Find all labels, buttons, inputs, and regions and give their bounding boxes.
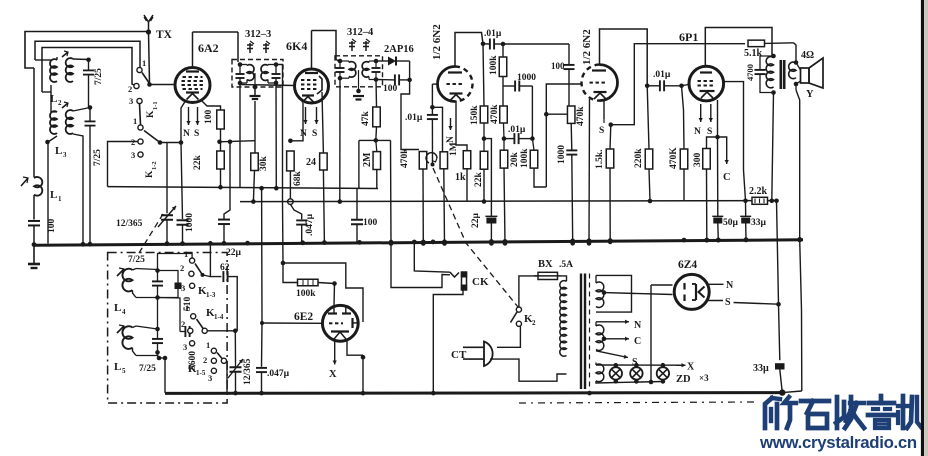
node plate RC — [481, 42, 486, 47]
svg-text:7/25: 7/25 — [139, 364, 156, 374]
svg-text:N: N — [634, 320, 642, 331]
svg-text:.5A: .5A — [559, 260, 573, 270]
page right border — [921, 0, 924, 456]
svg-text:1: 1 — [185, 303, 189, 313]
svg-text:S: S — [599, 126, 604, 136]
svg-text:47k: 47k — [361, 111, 371, 127]
wire 6K4 grid — [240, 85, 295, 86]
resistor 300 — [707, 137, 718, 149]
capacitor 100 (AVC end) — [356, 189, 358, 220]
wire detector to pot top — [401, 80, 419, 150]
capacitor .01u (AF coupling) — [431, 119, 433, 164]
speaker voice coil — [794, 60, 799, 65]
6A2 grids mesh — [183, 76, 186, 78]
312-4 center ground — [358, 70, 360, 91]
node HV tap — [602, 290, 607, 295]
resistor 100k (tone 2) — [530, 150, 538, 168]
coil L3 secondary winding — [66, 110, 73, 134]
312-3 primary coil — [247, 65, 254, 81]
wire K1-2 arm to oscillator node — [160, 142, 181, 144]
312-4 left cap — [336, 67, 345, 69]
wire cathode C tap — [718, 137, 727, 152]
wire 1M bottom to B+ line — [443, 169, 446, 244]
IF transformer 312-4 box — [335, 56, 383, 87]
312-3 center tap ground — [254, 73, 256, 87]
svg-text:3: 3 — [129, 96, 133, 106]
wire 6K4 screen to 24 ohm — [322, 92, 323, 153]
K1-3 arm — [195, 264, 203, 275]
svg-text:ZD: ZD — [676, 374, 691, 385]
pilot lamp ZD 1 — [614, 363, 619, 368]
wire 6Z4 S to B+ riser — [734, 303, 779, 305]
wire heater 6N2-2 to bus — [588, 99, 591, 243]
svg-text:2AP16: 2AP16 — [384, 44, 414, 55]
capacitor .047u (IF) — [296, 219, 307, 221]
svg-text:1-2: 1-2 — [151, 161, 158, 170]
6Z4 cathode chevron — [699, 287, 705, 298]
watermark char shi — [801, 399, 829, 404]
svg-text:1-3: 1-3 — [206, 291, 216, 299]
svg-text:1-4: 1-4 — [214, 313, 224, 321]
wire 30k to B+ line — [253, 171, 254, 202]
wire K1-1 c3 to K1-2 c1 — [140, 104, 141, 125]
wire B+ to 6E2 — [282, 202, 285, 263]
ground symbol left — [33, 245, 35, 263]
wire HV to 6Z4 plate 1 — [651, 284, 673, 286]
wire 312-3 secondary bottom to AVC — [275, 83, 277, 188]
6N2-1 heater arrow N — [450, 118, 452, 130]
312-3 left tuning cap — [236, 73, 245, 75]
wire S tap — [596, 351, 628, 358]
wire L5 top — [136, 326, 158, 329]
svg-text:1000: 1000 — [557, 145, 567, 164]
svg-text:100k: 100k — [489, 55, 499, 75]
resistor 24 (6K4 screen) — [320, 153, 328, 170]
capacitor .01u (tone 2) — [513, 133, 515, 144]
6K4 plate pin — [311, 31, 313, 71]
6E2 top bars — [328, 312, 337, 314]
svg-text:2.2k: 2.2k — [749, 186, 768, 197]
svg-text:100: 100 — [551, 61, 565, 71]
coil L2 secondary winding — [66, 58, 73, 82]
tube 6E2 envelope — [322, 305, 358, 341]
wire AVC down through .047u — [261, 323, 264, 367]
svg-text:CK: CK — [472, 276, 489, 288]
svg-text:1/2 6N2: 1/2 6N2 — [431, 24, 443, 60]
resistor 22k (6A2) — [217, 151, 225, 169]
svg-text:1: 1 — [133, 116, 137, 126]
wire 22k to AVC line — [220, 169, 222, 187]
wire lamp row bottom — [596, 381, 663, 383]
svg-text:30k: 30k — [259, 156, 269, 172]
wire L3 sec top to trimmer 2 — [73, 108, 90, 112]
K2 arm — [511, 312, 518, 323]
svg-text:Y: Y — [806, 89, 814, 100]
6N2-1 plate wire up — [455, 33, 483, 67]
wire detector line to CK break contact — [391, 244, 450, 288]
svg-text:4700: 4700 — [745, 64, 755, 81]
watermark char kuang — [765, 398, 772, 428]
6K4 grid rows — [301, 79, 304, 81]
6N2-2 cathode wire S — [603, 99, 605, 119]
wire cathode to NFB riser — [611, 44, 745, 125]
switch K2 — [516, 307, 521, 312]
wire screen node — [220, 141, 256, 142]
core arrow L2 — [62, 52, 68, 57]
wire L4 top — [136, 269, 158, 270]
tube 6K4 envelope — [295, 69, 329, 103]
node screen divider — [217, 140, 222, 145]
bottom ground bus — [165, 391, 782, 395]
AVC line (grid-return bus) — [108, 187, 379, 189]
svg-text:33µ: 33µ — [751, 218, 767, 228]
6E2 right pin down — [347, 340, 363, 355]
K1-5 arm — [217, 353, 224, 361]
resistor 22k (AF) — [480, 151, 488, 169]
wire L2 sec top to trimmer — [73, 58, 89, 61]
svg-text:3: 3 — [131, 150, 135, 160]
dashed gang link to tuning cap — [139, 214, 163, 253]
wire 6E2 anode pin — [333, 284, 336, 307]
node L2 trimmer top — [86, 58, 91, 63]
wire 30k top riser — [254, 101, 256, 153]
svg-text:1k: 1k — [455, 172, 466, 183]
trimmer 7/25 (3) — [155, 268, 160, 273]
svg-text:1: 1 — [142, 58, 146, 68]
svg-text:3: 3 — [183, 342, 187, 352]
svg-text:2: 2 — [181, 319, 185, 329]
6N2-2 cathode — [594, 91, 607, 93]
6Z4 plates — [683, 283, 685, 290]
6E2 cathode — [331, 330, 349, 332]
wire CK body to bottom bus — [433, 291, 463, 393]
resistor 20k — [500, 150, 508, 168]
resistor 470k (grid leak 6N2-2) — [567, 106, 575, 123]
coil L5 — [122, 326, 132, 349]
6A2 plate pin — [192, 32, 194, 69]
pot wiper — [426, 153, 437, 163]
tuning capacitor 12/365 (2) — [235, 362, 237, 367]
wire rectifier output down to 33u — [779, 304, 780, 360]
svg-text:3: 3 — [63, 151, 67, 159]
speaker 4ohm Y — [801, 68, 810, 83]
B+ line — [240, 201, 776, 202]
resistor 1M — [440, 152, 448, 169]
312-3 right tuning cap — [272, 73, 281, 75]
svg-text:470k: 470k — [490, 104, 500, 124]
wire K1-4 common to gang node — [207, 330, 235, 332]
6P1 cathode wire — [717, 100, 719, 137]
wire 6E2 target feed — [283, 263, 363, 322]
6P1 screen wire to B+ — [724, 82, 746, 201]
band unit dashed box — [108, 253, 228, 404]
svg-text:1-1: 1-1 — [152, 101, 159, 110]
junction L2/L3 — [42, 91, 51, 93]
wire lamp row top — [596, 364, 683, 366]
resistor 100k (6E2) — [283, 263, 298, 283]
wire plug bottom to primary bottom — [490, 359, 567, 381]
6N2-2 plate bar — [592, 69, 606, 71]
svg-text:N: N — [694, 127, 701, 137]
capacitor 5600 — [158, 298, 181, 332]
svg-text:6K4: 6K4 — [286, 39, 307, 53]
wire K1-3 c1 feed — [158, 254, 193, 271]
node 20k top — [503, 123, 506, 139]
6Z4 heater N — [706, 283, 723, 285]
wire plug to K2 — [497, 327, 521, 348]
svg-text:CT: CT — [451, 349, 467, 361]
svg-text:.047µ: .047µ — [267, 369, 290, 379]
svg-text:N: N — [446, 136, 456, 143]
svg-text:6P1: 6P1 — [679, 30, 698, 44]
wire 6A2 screen to 100 ohm — [201, 100, 221, 110]
6P1 grid wire — [682, 84, 690, 85]
tube 6A2 envelope — [175, 68, 210, 103]
6K4 heater arrows N S — [305, 107, 307, 124]
wire L3 right bottom to ground bus — [73, 134, 83, 244]
wire HV tap to 6Z4 plate 2 — [604, 293, 673, 295]
capacitor 22u (cathode) — [486, 218, 496, 224]
wire bus to CK tip — [414, 242, 450, 272]
capacitor .01u (NF) — [489, 39, 491, 50]
wire 6K4 plate to 312-4 — [312, 31, 339, 62]
core shield dashed — [589, 274, 591, 390]
wire 312-3 primary bottom down — [239, 83, 241, 187]
svg-text:5: 5 — [122, 367, 126, 375]
capacitor .047u (6E2) — [256, 367, 267, 369]
wire HV down to lamps — [650, 285, 652, 382]
svg-text:2M: 2M — [362, 152, 373, 167]
resistor 68k — [287, 151, 295, 171]
wire K1-5 common down — [226, 362, 229, 393]
resistor 30k — [251, 153, 259, 171]
svg-text:1000: 1000 — [185, 213, 195, 232]
svg-text:2: 2 — [203, 355, 207, 365]
coil L1 antenna rod — [33, 68, 35, 177]
resistor 5.1k (NFB) — [748, 40, 765, 47]
wire K1-3 arm to 62 node — [203, 275, 211, 277]
wire 24 to ground bus — [323, 170, 324, 243]
wire fuse to primary — [561, 276, 567, 281]
svg-text:S: S — [725, 297, 731, 308]
output transformer core — [779, 60, 782, 89]
resistor 1.5k — [606, 149, 614, 168]
svg-text:4: 4 — [122, 308, 126, 316]
312-3 corner nodes — [240, 64, 247, 66]
svg-text:www.crystalradio.cn: www.crystalradio.cn — [759, 433, 917, 452]
svg-text:N: N — [183, 129, 190, 139]
switch K1-4 — [191, 314, 196, 319]
antenna TX — [144, 15, 153, 22]
svg-text:2: 2 — [180, 263, 184, 273]
wire B+ node down to rectifier — [777, 201, 779, 304]
svg-text:1: 1 — [206, 340, 210, 350]
tube 6N2 first half envelope — [438, 67, 456, 102]
svg-text:12/365: 12/365 — [116, 219, 143, 229]
svg-text:312–4: 312–4 — [347, 27, 374, 38]
6N2-2 grid dashes — [590, 82, 593, 84]
capacitor 50u — [717, 137, 719, 217]
node bottom bus right end — [779, 389, 785, 395]
wire plate node to 100 cap — [503, 43, 569, 45]
tube 6P1 envelope — [689, 66, 724, 101]
wire K1-2 c2 to AVC line — [108, 142, 138, 187]
svg-text:6E2: 6E2 — [294, 311, 313, 323]
wire detector node to volume pot — [390, 140, 393, 243]
svg-text:S: S — [312, 129, 317, 139]
svg-text:2: 2 — [128, 84, 132, 94]
svg-text:C: C — [634, 336, 641, 347]
svg-text:50µ: 50µ — [723, 218, 739, 228]
coil L3 primary winding — [50, 111, 57, 134]
6N2-1 plate bar — [448, 71, 462, 73]
switch K1-1 — [137, 67, 142, 72]
svg-text:24: 24 — [306, 157, 316, 168]
wire grid node to 1M — [432, 107, 442, 152]
switch K1-3 — [190, 258, 195, 263]
6N2-1 grid dashes — [447, 83, 450, 85]
svg-text:2: 2 — [532, 319, 536, 327]
312-4 right cap — [372, 67, 381, 69]
wire 20k bottom to bus — [504, 168, 505, 243]
resistor 2.2k (filter) — [752, 197, 768, 204]
plug CT — [484, 342, 493, 367]
svg-text:1.5k.: 1.5k. — [595, 149, 605, 169]
svg-text:S: S — [707, 127, 712, 137]
6P1 plate bar — [700, 71, 712, 73]
K1-4 arm — [197, 319, 205, 331]
svg-text:.01µ: .01µ — [653, 70, 671, 80]
312-3 secondary coil — [261, 65, 268, 81]
svg-text:L: L — [114, 361, 121, 373]
capacitor 100 (HF) — [568, 44, 570, 65]
svg-text:20k: 20k — [510, 152, 520, 168]
wire 2M bottom to AVC end — [376, 170, 378, 189]
312-4 secondary coil — [362, 62, 369, 77]
wire K1-1 arm to 6A2 grid — [150, 84, 176, 86]
CK jack tip spring — [450, 272, 459, 277]
wire 312-3 secondary top to B+ riser — [276, 65, 283, 202]
svg-text:3: 3 — [208, 373, 212, 383]
capacitor 510 (padder) — [158, 271, 179, 283]
capacitor 1000 (tone 1) — [502, 77, 504, 107]
svg-text:100k: 100k — [296, 289, 316, 299]
wire 312-4 primary bottom to B+ — [339, 78, 341, 201]
capacitor 62 — [210, 243, 221, 276]
svg-text:220k: 220k — [634, 148, 644, 168]
HV secondary winding — [595, 275, 597, 283]
tube 6N2 second half envelope — [600, 65, 618, 101]
312-4 primary coil — [349, 62, 356, 77]
wire rail 3 — [42, 48, 136, 93]
coil L2 primary winding — [50, 59, 57, 82]
wire L4 bottom to trimmer bottom — [136, 297, 158, 299]
lamp secondary winding — [595, 363, 597, 366]
wire pot bottom to ground — [422, 169, 424, 244]
CK jack body — [462, 272, 467, 290]
svg-text:22µ: 22µ — [226, 248, 242, 258]
watermark char ji — [898, 404, 908, 408]
svg-text:470k: 470k — [400, 148, 410, 168]
svg-text:2: 2 — [58, 99, 62, 107]
wire 68k to .047u cap — [290, 204, 301, 219]
svg-text:.01µ: .01µ — [405, 113, 423, 123]
svg-text:.047µ: .047µ — [305, 213, 315, 236]
fuse BX 0.5A — [538, 272, 558, 279]
diode 2AP16 — [376, 60, 388, 62]
svg-text:470k: 470k — [576, 106, 586, 126]
6K4 cathode — [302, 94, 314, 96]
svg-text:K: K — [146, 110, 156, 118]
IF transformer 312-3 box — [232, 60, 283, 88]
svg-text:3: 3 — [181, 283, 185, 293]
core arrow L1 — [21, 178, 28, 186]
wire speaker return to ground bus — [795, 84, 797, 90]
svg-text:22µ: 22µ — [471, 213, 481, 229]
svg-text:22k: 22k — [474, 172, 484, 188]
switch K1-1 arm — [142, 73, 150, 84]
watermark char shou — [835, 397, 840, 428]
svg-text:33µ: 33µ — [753, 363, 769, 374]
svg-text:6A2: 6A2 — [198, 41, 219, 55]
wire 6N2-1 cathode to 1k — [456, 101, 467, 151]
resistor 100 (6A2 screen) — [217, 110, 225, 129]
tube 6Z4 envelope — [674, 274, 709, 309]
6P1 plate wire — [705, 28, 772, 67]
wire 22k node to 22u cap — [484, 139, 491, 217]
core arrow L5 — [117, 326, 124, 333]
wire 22k AF to B+ line — [483, 169, 485, 201]
power dashed outline bottom — [519, 402, 755, 403]
312-4 trimmer arrows — [351, 41, 353, 51]
capacitor 100 (detector) — [394, 74, 396, 85]
6P1 cathode — [700, 90, 715, 92]
node TX junction — [146, 29, 151, 34]
6Z4 cathode S out — [706, 300, 724, 302]
svg-text:X: X — [329, 369, 337, 380]
svg-text:S: S — [194, 129, 199, 139]
6E2 cathode X wire — [334, 340, 336, 354]
wire N tap — [596, 321, 629, 323]
6K4 screen tab — [317, 76, 322, 94]
switch K1-5 — [211, 348, 216, 353]
node C tap — [602, 337, 607, 342]
resistor 47k — [375, 80, 378, 108]
output transformer primary — [771, 54, 776, 59]
svg-text:100: 100 — [363, 218, 378, 228]
core arrow L3 — [62, 103, 68, 108]
6N2-1 cathode — [450, 92, 463, 94]
wire gang node to tuning cap 2 — [234, 331, 236, 362]
svg-text:L: L — [50, 189, 57, 201]
resistor 1k — [463, 151, 471, 169]
bias secondary winding — [595, 322, 597, 326]
svg-text:X: X — [687, 362, 695, 373]
312-4 nodes — [340, 60, 349, 62]
power transformer primary — [560, 281, 567, 357]
wire screen bypass to 22u — [224, 142, 230, 220]
node AF coupling — [645, 84, 650, 89]
wire HV top — [596, 275, 632, 312]
resistor 2M — [373, 152, 381, 170]
svg-text:4Ω: 4Ω — [801, 50, 814, 61]
capacitor 4700 — [760, 56, 774, 70]
wire 6A2 plate rail to 312-3 — [193, 31, 239, 33]
6A2 heater arrows N S — [188, 107, 190, 125]
wire K2 to fuse — [519, 276, 538, 307]
svg-text:100: 100 — [47, 219, 57, 234]
resistor 470K (6P1 grid) — [682, 86, 684, 110]
